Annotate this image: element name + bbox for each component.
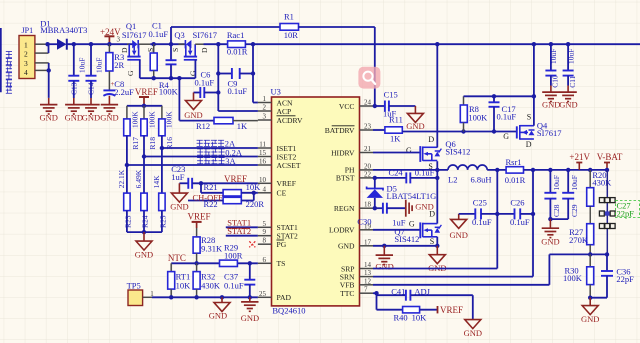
ground GND (C25 arrow) bbox=[449, 214, 467, 240]
junction VREF rail R18 bbox=[142, 104, 146, 108]
svg-text:D: D bbox=[200, 47, 209, 53]
capacitor C37 0.1uF bbox=[224, 263, 255, 297]
svg-text:VREF: VREF bbox=[224, 174, 247, 184]
svg-text:9.31K: 9.31K bbox=[201, 244, 223, 254]
svg-text:430K: 430K bbox=[201, 280, 221, 290]
pin 25 PAD (U3 left) bbox=[258, 290, 292, 302]
svg-text:GND: GND bbox=[82, 113, 100, 123]
svg-text:C24: C24 bbox=[389, 168, 404, 178]
ground GND (Q7 source arrow) bbox=[428, 246, 446, 273]
svg-text:V-BAT: V-BAT bbox=[597, 152, 623, 162]
junction C26 right bbox=[531, 212, 535, 216]
svg-text:100K: 100K bbox=[131, 111, 140, 128]
svg-text:ACP: ACP bbox=[277, 107, 292, 116]
svg-text:8: 8 bbox=[263, 237, 267, 245]
power port +21V bbox=[569, 152, 590, 170]
svg-text:C28: C28 bbox=[552, 204, 561, 217]
wire L2 to Rsr1 bbox=[487, 169, 506, 171]
svg-text:REGN: REGN bbox=[334, 204, 355, 213]
svg-text:SI7617: SI7617 bbox=[122, 30, 147, 40]
junction C14 tap bbox=[89, 42, 93, 46]
resistor R1 10R bbox=[171, 12, 375, 45]
svg-text:0.01R: 0.01R bbox=[227, 47, 248, 57]
svg-text:TP5: TP5 bbox=[127, 280, 141, 290]
junction C17 bottom bbox=[492, 129, 496, 133]
wire VREF to R21 bbox=[201, 183, 223, 193]
svg-text:D: D bbox=[429, 209, 435, 218]
wire Q6 drain riser bbox=[436, 44, 438, 147]
capacitor C41 (TTC) bbox=[373, 286, 473, 300]
svg-text:3: 3 bbox=[24, 59, 28, 68]
power port VREF (R28) bbox=[188, 212, 211, 229]
svg-text:C11: C11 bbox=[568, 75, 577, 87]
pin 13 SRN (U3 right) bbox=[340, 269, 373, 281]
svg-text:GND: GND bbox=[581, 314, 599, 324]
pin 9 STAT2 (U3 left) bbox=[258, 228, 298, 240]
svg-text:GND: GND bbox=[184, 110, 202, 120]
svg-text:100K: 100K bbox=[159, 86, 179, 96]
svg-text:CH-OFF: CH-OFF bbox=[193, 192, 224, 202]
svg-text:R24: R24 bbox=[141, 215, 150, 228]
svg-text:0.01R: 0.01R bbox=[505, 175, 526, 185]
svg-text:R40: R40 bbox=[394, 313, 408, 323]
svg-text:0.1uF: 0.1uF bbox=[149, 29, 169, 39]
capacitor C15 1uF bbox=[375, 90, 416, 119]
junction ISET2 tap bbox=[142, 154, 146, 158]
wire Q7 source drop bbox=[436, 237, 438, 246]
svg-text:CE: CE bbox=[277, 189, 287, 198]
junction C17 top bbox=[492, 94, 496, 98]
ground GND (JP1) bbox=[39, 98, 57, 123]
svg-text:0.1uF: 0.1uF bbox=[224, 280, 244, 290]
svg-text:U3: U3 bbox=[271, 87, 281, 97]
net label 输入电流3A (input current 3A) bbox=[197, 156, 236, 166]
svg-text:GND: GND bbox=[135, 250, 153, 260]
wire ACP riser bbox=[218, 44, 258, 111]
pin 20 PH (U3 right) bbox=[345, 162, 373, 174]
junction C28 tap bbox=[548, 168, 552, 172]
junction C37 bottom bbox=[248, 295, 252, 299]
junction R32 bottom bbox=[194, 295, 198, 299]
svg-text:2R: 2R bbox=[114, 60, 124, 70]
svg-text:C26: C26 bbox=[510, 198, 524, 208]
junction R30 ground bbox=[588, 296, 592, 300]
svg-text:14: 14 bbox=[364, 261, 372, 269]
svg-text:GND: GND bbox=[241, 313, 259, 323]
transistor Q3 SI7617 (P-FET) bbox=[171, 30, 217, 76]
junction GND tap (PAD rail) bbox=[220, 295, 224, 299]
resistor R22 220R bbox=[204, 197, 265, 209]
junction JP1 pin4 bbox=[47, 68, 51, 72]
wire Q4 source branch bbox=[464, 95, 534, 97]
svg-text:G: G bbox=[409, 220, 415, 229]
svg-text:21: 21 bbox=[364, 145, 372, 153]
junction R3 tap bbox=[107, 42, 111, 46]
svg-text:GND: GND bbox=[39, 113, 57, 123]
test point TP5 bbox=[127, 280, 155, 305]
ground GND (C8) bbox=[100, 96, 118, 123]
resistor R29 100R bbox=[220, 242, 243, 266]
no-ERC marker on PG pin bbox=[249, 241, 255, 247]
svg-text:R21: R21 bbox=[204, 182, 218, 192]
wire TS row bbox=[171, 262, 258, 264]
capacitor C13 10uF bbox=[68, 44, 86, 98]
svg-text:1: 1 bbox=[263, 95, 267, 103]
ground GND (C41) bbox=[464, 295, 482, 338]
svg-text:0.1uF: 0.1uF bbox=[195, 78, 215, 88]
resistor R25 14K bbox=[152, 175, 167, 228]
svg-text:100K: 100K bbox=[468, 113, 488, 123]
svg-text:24: 24 bbox=[364, 99, 372, 107]
wire Q1 gate drop bbox=[139, 60, 141, 78]
svg-text:17: 17 bbox=[364, 238, 372, 246]
ground GND (PAD rail arrow) bbox=[209, 297, 230, 320]
power port VREF (divider rail) bbox=[135, 87, 158, 106]
power port V-BAT bbox=[597, 152, 623, 170]
svg-text:R23: R23 bbox=[123, 215, 132, 228]
wire STAT1 bbox=[226, 226, 258, 228]
svg-text:20: 20 bbox=[364, 162, 372, 170]
wire Q1-Q3 source node bbox=[150, 43, 184, 45]
junction VCC node bbox=[373, 104, 377, 108]
junction C29 tap bbox=[566, 168, 570, 172]
wire C36 to R30 ground bbox=[590, 297, 607, 299]
capacitor C6 0.1uF bbox=[194, 70, 219, 99]
junction R8 bottom bbox=[461, 129, 465, 133]
wire Q3 gate drop bbox=[194, 60, 196, 78]
svg-text:GND: GND bbox=[375, 261, 393, 271]
wire Rsr1 to output rail bbox=[524, 169, 609, 171]
resistor R40 10K bbox=[394, 307, 428, 323]
capacitor C28 10uF bbox=[544, 170, 561, 219]
svg-text:18: 18 bbox=[364, 201, 372, 209]
junction pin17 ground tap bbox=[382, 244, 386, 248]
junction divider ground bbox=[142, 230, 146, 234]
resistor R18 100K bbox=[141, 106, 157, 150]
svg-text:PAD: PAD bbox=[277, 293, 292, 302]
pin 19 LODRV (U3 right) bbox=[329, 222, 373, 234]
svg-text:LBAT54LT1G: LBAT54LT1G bbox=[387, 191, 437, 201]
svg-text:22pF: 22pF bbox=[617, 209, 635, 219]
resistor R28 9.31K bbox=[193, 228, 223, 263]
resistor R17 100K bbox=[124, 106, 140, 150]
junction C24 right bbox=[435, 176, 439, 180]
wire Q3 to Rac1 bbox=[204, 43, 228, 45]
svg-text:3: 3 bbox=[117, 36, 121, 44]
svg-text:GND: GND bbox=[338, 242, 355, 251]
net label 开关电源接口 (switch power interface) bbox=[6, 52, 12, 94]
ground GND (dividers) bbox=[135, 232, 153, 259]
pin 6 TS (U3 left) bbox=[258, 256, 285, 268]
junction R20 tap bbox=[588, 168, 592, 172]
svg-text:4: 4 bbox=[24, 68, 28, 77]
svg-text:C14: C14 bbox=[87, 82, 96, 95]
resistor R3 2R bbox=[106, 44, 125, 90]
svg-text:16: 16 bbox=[259, 158, 267, 166]
capacitor C14 10uF bbox=[86, 44, 104, 98]
svg-text:SI7617: SI7617 bbox=[537, 128, 562, 138]
capacitor C26 0.1uF bbox=[497, 198, 533, 228]
junction gate rail to ACDRV bbox=[177, 76, 181, 80]
junction VFB-R30 bbox=[588, 252, 592, 256]
svg-text:TTC: TTC bbox=[340, 289, 354, 298]
transistor Q1 SI7617 (P-FET) bbox=[117, 21, 156, 76]
resistor R32 430K bbox=[193, 263, 221, 297]
svg-text:D: D bbox=[120, 47, 129, 53]
wire JP1 pin2 to pin1 junction bbox=[48, 44, 50, 53]
wire BATDRV gate line bbox=[402, 131, 517, 133]
svg-text:270K: 270K bbox=[569, 235, 589, 245]
pin 21 HIDRV (U3 right) bbox=[331, 145, 373, 157]
net label ADJ bbox=[414, 286, 430, 296]
svg-text:GND: GND bbox=[449, 230, 467, 240]
pin 4 CE (U3 left) bbox=[258, 185, 287, 197]
wire R1 to VCC bbox=[374, 27, 376, 106]
wire main rail to Q4 bbox=[533, 44, 535, 96]
pin 15 ISET2 (U3 left) bbox=[258, 149, 297, 161]
capacitor C24 0.1uF bbox=[373, 168, 437, 184]
svg-text:14K: 14K bbox=[152, 175, 161, 189]
svg-text:HIDRV: HIDRV bbox=[331, 148, 355, 157]
wire PH rail bbox=[373, 169, 448, 171]
svg-text:LODRV: LODRV bbox=[329, 226, 355, 235]
capacitor C29 10uF bbox=[562, 170, 579, 219]
svg-text:VREF: VREF bbox=[440, 305, 463, 315]
svg-text:0.1uF: 0.1uF bbox=[415, 168, 435, 178]
svg-text:10uF: 10uF bbox=[552, 175, 561, 190]
wire JP1 pins3-4 to ground bbox=[48, 63, 50, 98]
ground GND (C15) bbox=[406, 106, 424, 131]
svg-text:100K: 100K bbox=[563, 273, 583, 283]
svg-text:R12: R12 bbox=[196, 121, 210, 131]
wire STAT2 bbox=[226, 235, 258, 237]
svg-text:C25: C25 bbox=[473, 198, 487, 208]
op-amp U3 BQ24610 (charge controller IC) bbox=[271, 87, 360, 316]
junction Q6 drain riser bbox=[435, 42, 439, 46]
svg-text:C10: C10 bbox=[551, 75, 560, 88]
net label NTC bbox=[168, 253, 186, 263]
resistor R8 100K bbox=[460, 96, 488, 131]
wire VREF rail bbox=[127, 105, 162, 107]
pin 5 STAT1 (U3 left) bbox=[258, 220, 298, 232]
svg-text:R18: R18 bbox=[148, 137, 157, 150]
svg-text:GND: GND bbox=[406, 121, 424, 131]
junction C11 tap bbox=[566, 42, 570, 46]
junction VFB-C36 bbox=[605, 252, 609, 256]
resistor Rsr1 0.01R bbox=[505, 157, 526, 185]
wire main rail after Rac1 bbox=[245, 43, 640, 45]
svg-text:NTC: NTC bbox=[168, 253, 186, 263]
svg-text:GND: GND bbox=[541, 237, 559, 247]
junction JP1 pin1 bbox=[45, 42, 49, 46]
junction main rail Q4 riser bbox=[532, 42, 536, 46]
resistor R24 6.49K bbox=[134, 169, 149, 228]
wire VFB routing bbox=[373, 254, 549, 284]
capacitor C25 0.1uF bbox=[459, 198, 498, 228]
svg-text:5: 5 bbox=[263, 220, 267, 228]
wire ISET1 bbox=[162, 147, 258, 149]
resistor R30 100K bbox=[563, 254, 594, 297]
junction C25 right bbox=[495, 212, 499, 216]
svg-text:Rac1: Rac1 bbox=[227, 30, 244, 40]
net label 预充电流0.2A (precharge current 0.2A) bbox=[197, 147, 243, 157]
svg-text:6.49K: 6.49K bbox=[134, 169, 143, 188]
svg-text:G: G bbox=[406, 146, 412, 155]
pin 11 ISET1 (U3 left) bbox=[258, 141, 297, 153]
pin 1 ACN (U3 left) bbox=[258, 95, 293, 107]
wire D1 cathode to main rail bbox=[67, 43, 134, 45]
svg-text:L2: L2 bbox=[448, 174, 457, 184]
svg-text:BTST: BTST bbox=[336, 174, 355, 183]
svg-text:S: S bbox=[527, 113, 531, 122]
svg-text:2: 2 bbox=[24, 50, 28, 59]
ground GND (C10) bbox=[542, 86, 560, 110]
capacitor C30 1uF bbox=[357, 203, 406, 228]
svg-text:+21V: +21V bbox=[569, 152, 590, 162]
svg-text:Rsr1: Rsr1 bbox=[506, 157, 522, 167]
svg-text:R1: R1 bbox=[284, 12, 294, 22]
svg-text:6: 6 bbox=[263, 256, 267, 264]
svg-text:10: 10 bbox=[259, 176, 267, 184]
junction Q4 branch bbox=[532, 94, 536, 98]
svg-text:3: 3 bbox=[263, 113, 267, 121]
resistor R11 1K bbox=[373, 114, 403, 143]
wire ACN riser bbox=[253, 44, 258, 102]
wire R22 left (CH-OFF) bbox=[188, 200, 254, 202]
svg-text:10uF: 10uF bbox=[570, 175, 579, 190]
svg-text:23: 23 bbox=[364, 123, 372, 131]
capacitor C36 22pF bbox=[601, 254, 634, 297]
svg-text:GND: GND bbox=[209, 311, 227, 321]
capacitor C1 0.1uF bbox=[149, 21, 177, 79]
wire Q6 source to PH bbox=[436, 161, 438, 170]
pin 3 ACDRV (U3 left) bbox=[258, 113, 303, 125]
transistor Q7 SIS412 (N-FET) bbox=[373, 209, 441, 246]
junction VREF-R21 tap bbox=[199, 181, 203, 185]
svg-text:SIS412: SIS412 bbox=[394, 234, 419, 244]
svg-text:C13: C13 bbox=[70, 82, 79, 95]
junction REGN node bbox=[373, 206, 377, 210]
svg-text:9: 9 bbox=[263, 228, 267, 236]
svg-text:C29: C29 bbox=[570, 204, 579, 217]
connector JP1 bbox=[19, 26, 49, 79]
ground GND (C6) bbox=[184, 93, 202, 121]
resistor R23 22.1K bbox=[117, 169, 132, 228]
svg-text:0.1uF: 0.1uF bbox=[497, 112, 517, 122]
net label STAT1 bbox=[227, 217, 251, 227]
junction PH node bbox=[435, 168, 439, 172]
svg-text:100R: 100R bbox=[224, 250, 243, 260]
resistor R12 1K bbox=[196, 117, 248, 130]
power port VREF (R40) bbox=[438, 305, 464, 315]
svg-text:R11: R11 bbox=[389, 114, 403, 124]
wire TTC to R40 bbox=[377, 293, 403, 310]
svg-text:G: G bbox=[126, 70, 135, 76]
junction R4 bottom bbox=[152, 76, 156, 80]
svg-text:BQ24610: BQ24610 bbox=[272, 306, 305, 316]
svg-text:12: 12 bbox=[364, 277, 372, 285]
capacitor C8 2.2uF (polarized) bbox=[103, 79, 134, 97]
svg-text:100K: 100K bbox=[165, 111, 174, 128]
svg-text:BATDRV: BATDRV bbox=[325, 126, 355, 135]
wire R17-R23 column bbox=[126, 136, 128, 193]
pin 14 SRP (U3 right) bbox=[341, 261, 373, 273]
svg-text:430K: 430K bbox=[592, 178, 612, 188]
svg-text:TS: TS bbox=[277, 259, 286, 268]
junction RT1 bottom bbox=[169, 295, 173, 299]
ui overlay magnifier icon bbox=[358, 67, 380, 89]
svg-text:ACSET: ACSET bbox=[277, 161, 301, 170]
wire C29 to C28 ground bbox=[550, 218, 568, 220]
thermistor RT1 10K bbox=[168, 263, 191, 297]
svg-text:SIS412: SIS412 bbox=[445, 147, 470, 157]
capacitor C23 1uF bbox=[171, 164, 258, 189]
resistor R16 100K bbox=[159, 106, 174, 150]
pin 17 GND (U3 right) bbox=[338, 238, 373, 250]
svg-text:GND: GND bbox=[100, 113, 118, 123]
svg-text:22: 22 bbox=[364, 170, 372, 178]
svg-text:1uF: 1uF bbox=[171, 172, 185, 182]
svg-text:VCC: VCC bbox=[339, 102, 355, 111]
wire gate rail bbox=[140, 77, 196, 79]
junction C10 tap bbox=[549, 42, 553, 46]
diode D1 MBRA340T3 bbox=[40, 19, 87, 50]
svg-text:S: S bbox=[430, 237, 434, 246]
pin 18 REGN (U3 right) bbox=[334, 201, 373, 213]
ground GND (C11) bbox=[559, 86, 577, 110]
net label CH-OFF bbox=[193, 192, 224, 202]
wire R40 to VREF bbox=[420, 309, 437, 311]
wire divider bottoms bbox=[127, 211, 162, 233]
resistor R27 270K bbox=[569, 224, 594, 255]
svg-text:10uF: 10uF bbox=[78, 58, 87, 73]
wire PAD rail bbox=[152, 296, 258, 298]
svg-text:10uF: 10uF bbox=[549, 49, 558, 64]
pin 22 BTST (U3 right) bbox=[336, 170, 373, 182]
svg-text:SI7617: SI7617 bbox=[193, 30, 218, 40]
junction C37 top bbox=[248, 261, 252, 265]
svg-text:D: D bbox=[526, 140, 532, 149]
wire ACSET bbox=[127, 164, 258, 166]
svg-text:1K: 1K bbox=[237, 121, 248, 131]
junction Q7 source bbox=[435, 244, 439, 248]
junction SRN node bbox=[531, 168, 535, 172]
wire VFB row bbox=[549, 253, 607, 255]
transistor Q4 SI7617 (P-FET) bbox=[503, 113, 561, 150]
junction TTC node bbox=[374, 291, 378, 295]
svg-text:10K: 10K bbox=[176, 280, 192, 290]
svg-text:22pF: 22pF bbox=[616, 274, 634, 284]
svg-text:10uF: 10uF bbox=[566, 49, 575, 64]
svg-text:7: 7 bbox=[364, 286, 368, 294]
junction C13 tap bbox=[72, 42, 76, 46]
capacitor C17 0.1uF bbox=[489, 96, 517, 131]
pin 23 BATDRV (U3 right) bbox=[325, 123, 373, 135]
wire GND pin17 row bbox=[373, 245, 437, 247]
svg-text:6.8uH: 6.8uH bbox=[471, 174, 492, 184]
svg-text:25: 25 bbox=[259, 290, 267, 298]
junction SRP node bbox=[495, 168, 499, 172]
wire Q4 S riser bbox=[533, 96, 535, 125]
power port +24V bbox=[100, 27, 121, 44]
svg-text:R17: R17 bbox=[131, 137, 140, 150]
resistor R4 100K bbox=[150, 44, 178, 96]
ground GND (pin17 bar) bbox=[375, 246, 393, 271]
svg-text:2.2uF: 2.2uF bbox=[114, 87, 134, 97]
svg-text:GND: GND bbox=[559, 100, 577, 110]
svg-text:2: 2 bbox=[263, 104, 267, 112]
svg-text:10uF: 10uF bbox=[95, 58, 104, 73]
